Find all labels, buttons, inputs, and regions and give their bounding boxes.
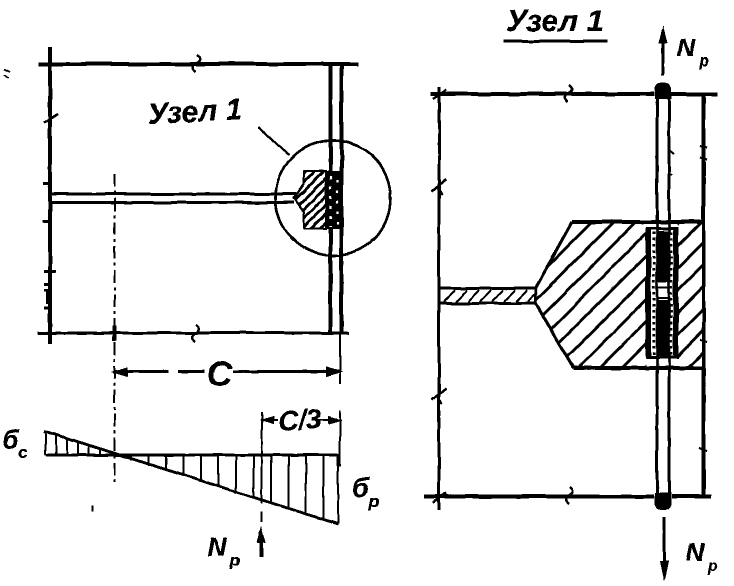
panel left edge bbox=[48, 47, 51, 344]
dimension C right extension line bbox=[339, 334, 341, 384]
gusset body white bbox=[536, 222, 702, 368]
gusset hatch left part bbox=[530, 216, 652, 374]
detail right edge bbox=[702, 94, 705, 496]
C/3 right extension bbox=[339, 410, 341, 467]
svg-text:р: р bbox=[368, 492, 379, 511]
mini gusset hatched plate bbox=[290, 168, 330, 232]
sleeve interior bbox=[646, 228, 679, 358]
panel edge nubs bbox=[43, 184, 49, 222]
Np arrow top right bbox=[662, 34, 665, 76]
rod right line bbox=[668, 86, 671, 507]
rod bottom cap bbox=[656, 494, 671, 509]
sleeve top cap bbox=[646, 227, 679, 230]
rod left line bbox=[656, 86, 659, 507]
leader line bbox=[258, 127, 289, 155]
rod dark upper segment bbox=[658, 231, 669, 282]
Np position line bbox=[261, 455, 263, 522]
svg-text:С: С bbox=[207, 355, 233, 394]
svg-text:Узел 1: Узел 1 bbox=[506, 3, 604, 38]
sleeve bottom cap bbox=[646, 356, 679, 359]
svg-text:б: б bbox=[352, 473, 370, 503]
break mark detail top edge bbox=[565, 85, 572, 102]
C/3 right arrow bbox=[328, 416, 342, 424]
gusset bottom edge bbox=[574, 366, 702, 370]
break mark bottom edge bbox=[192, 325, 199, 342]
svg-text:р: р bbox=[698, 53, 709, 70]
break mark left edge lower bbox=[46, 292, 51, 304]
strut bottom line bbox=[440, 302, 537, 305]
svg-text:N: N bbox=[677, 34, 696, 62]
gusset upper-left slope bbox=[536, 222, 572, 287]
detail bottom edge bbox=[424, 495, 711, 498]
tie bar top line bbox=[49, 193, 296, 195]
right triangle edge bbox=[337, 454, 339, 524]
gusset top edge bbox=[572, 220, 702, 224]
svg-text:с: с bbox=[18, 443, 28, 462]
dimension C left arrow bbox=[111, 367, 128, 377]
break mark top edge bbox=[193, 55, 200, 72]
sleeve right wall bbox=[673, 228, 679, 358]
centroid axis dash-dot bbox=[114, 174, 116, 483]
strut top line bbox=[440, 287, 537, 290]
svg-text:С/3: С/3 bbox=[277, 403, 323, 437]
stray mark left margin bbox=[4, 69, 10, 78]
svg-text:N: N bbox=[207, 532, 227, 562]
left dimension line bbox=[438, 87, 441, 510]
sleeve thread dots right bbox=[670, 232, 673, 355]
break mark left edge upper bbox=[44, 114, 58, 123]
svg-text:р: р bbox=[229, 551, 240, 570]
anchor block dark bbox=[325, 171, 344, 229]
Np arrow lower left bbox=[259, 540, 262, 557]
stress slope line bbox=[44, 431, 338, 524]
small stray dash bbox=[91, 506, 93, 512]
C/3 left arrow bbox=[260, 416, 274, 424]
rod top cap bbox=[656, 84, 671, 98]
column inner line bbox=[340, 66, 344, 334]
panel bottom edge bbox=[38, 332, 349, 335]
C/3 dimension line bbox=[262, 419, 340, 421]
svg-text:Узел 1: Узел 1 bbox=[147, 93, 243, 131]
detail top edge bbox=[431, 92, 717, 95]
svg-text:N: N bbox=[686, 539, 705, 567]
dimension C right arrow bbox=[326, 367, 343, 377]
anchor block white dashes bbox=[329, 176, 331, 227]
strut hatch bbox=[444, 290, 536, 302]
C/3 left extension bbox=[261, 412, 263, 455]
panel top edge bbox=[38, 62, 358, 65]
left triangle edge bbox=[44, 431, 46, 455]
break mark left dim lower bbox=[432, 388, 446, 404]
tick on right edge bbox=[699, 146, 707, 451]
break mark detail bottom edge bbox=[566, 487, 573, 504]
gusset lower-left slope bbox=[536, 304, 574, 368]
tie bar bottom line bbox=[49, 201, 294, 203]
title underline bbox=[503, 40, 608, 43]
tick on rod bbox=[668, 150, 674, 175]
break mark left dim upper bbox=[432, 179, 446, 195]
svg-text:р: р bbox=[707, 558, 718, 575]
dimension C line bbox=[114, 370, 340, 372]
sleeve thread dots left bbox=[652, 232, 655, 355]
stress baseline bbox=[46, 454, 338, 457]
tick bottom left dim bbox=[433, 493, 446, 503]
right triangle hatch bbox=[131, 455, 324, 520]
left triangle hatch bbox=[56, 435, 100, 455]
tick top left dim bbox=[433, 90, 446, 99]
sleeve left wall bbox=[646, 228, 652, 358]
rod coupler tick bbox=[657, 288, 669, 299]
gusset hatch right part bbox=[676, 216, 706, 374]
column outer line bbox=[329, 66, 333, 334]
Np arrow bottom right bbox=[663, 517, 666, 562]
tie bar left end tick bbox=[48, 175, 51, 221]
axis tick at bottom edge bbox=[113, 326, 116, 341]
detail circle bbox=[276, 141, 391, 256]
gusset left cap bbox=[535, 286, 537, 305]
rod dark lower segment bbox=[658, 300, 669, 356]
